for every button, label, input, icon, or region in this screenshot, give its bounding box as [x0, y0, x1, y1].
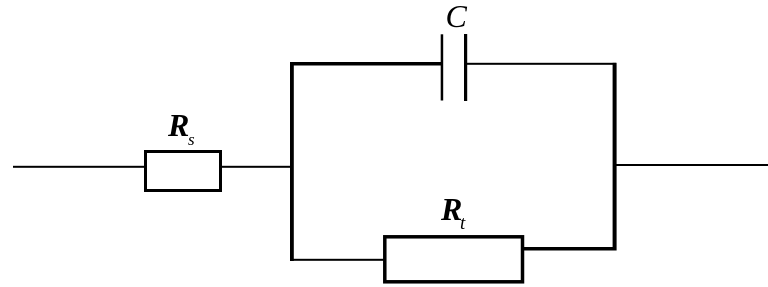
wire: left vertical branch	[290, 62, 294, 261]
wire: top thick wire to capacitor	[290, 62, 442, 66]
label R_s	[167, 107, 195, 149]
wire: capacitor to right vertical	[467, 63, 616, 65]
svg-text:s: s	[188, 130, 195, 149]
wire: left input lead	[13, 166, 144, 168]
wire: R_t to right vertical (thick)	[521, 247, 617, 251]
svg-text:C: C	[446, 0, 468, 34]
svg-text:t: t	[460, 213, 466, 234]
wire: R_s to left node	[222, 166, 292, 168]
svg-text:R: R	[440, 191, 462, 227]
wire: right output lead	[614, 164, 768, 166]
resistor R_s	[146, 152, 221, 191]
svg-text:R: R	[167, 107, 189, 143]
label R_t	[440, 191, 466, 234]
wire: bottom thin wire from left node	[290, 259, 384, 261]
capacitor C	[441, 34, 468, 101]
resistor R_t	[385, 237, 523, 282]
wire: right vertical branch	[613, 63, 617, 251]
